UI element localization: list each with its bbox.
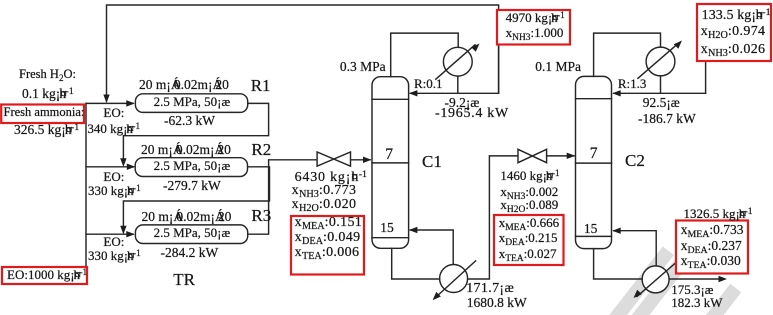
watermark stripe 2 <box>630 244 698 315</box>
wire: top NH3 recycle line from C1 distillate back to R1 feed <box>107 5 499 101</box>
label: EO 1000 kg/h <box>7 268 87 281</box>
label: -1965.4 kW <box>435 107 509 121</box>
condenser E1 diagonal arrow line <box>436 45 475 79</box>
arrowhead reboiler E2 diagonal <box>433 292 441 300</box>
label: 1326.5 kg/h <box>684 207 753 220</box>
wire: C2 bottoms product out <box>669 278 719 280</box>
reactor R3 body <box>135 225 247 244</box>
label: EO to R3 <box>103 235 124 248</box>
wire: R1 outlet to R2 <box>123 103 268 164</box>
wire: R1 feed line from EO bus <box>86 102 133 104</box>
red box B: Fresh ammonia <box>1 105 84 124</box>
label: R3 conditions <box>154 226 231 239</box>
column C2 stage-7 tray line <box>576 162 612 164</box>
label: R3 duty <box>161 246 219 260</box>
label: xNH3 0.002 <box>500 185 558 198</box>
condenser E3 circle <box>646 47 675 76</box>
red box F: C2 bottoms amine fractions <box>676 221 748 274</box>
label: 0.3 MPa <box>340 60 386 74</box>
label: xTEA 0.027 <box>499 247 557 260</box>
label: R3 dimensions <box>142 210 232 224</box>
arrowhead condenser E3 diagonal <box>674 41 682 49</box>
label: xH2O 0.020 <box>292 198 357 212</box>
label: R:0.1 <box>414 77 443 90</box>
wire: C1 reboiler return <box>411 230 454 265</box>
column C1 bottom cap line <box>372 237 409 239</box>
red box C: EO 1000 <box>2 267 87 284</box>
arrowhead C1 reboiler return <box>409 227 418 233</box>
wire: R2 feed line <box>86 166 134 168</box>
label: xDEA 0.237 <box>681 239 742 253</box>
arrowhead C2 reboiler return <box>612 228 621 234</box>
label: C1 stage 7 <box>385 147 393 163</box>
label: xTEA 0.030 <box>681 254 741 268</box>
label: xTEA 0.006 <box>295 246 360 260</box>
wire: C2 reboiler return <box>614 231 656 266</box>
label: xDEA 0.215 <box>499 231 558 244</box>
wire: C2 distillate to red box G <box>705 61 707 93</box>
label: R2 duty <box>163 179 221 193</box>
label: C1 <box>422 153 442 170</box>
wire: condenser E1 outlet down <box>457 76 459 93</box>
label: -9.2 C <box>445 96 480 110</box>
label: R1 <box>251 77 271 94</box>
label: xNH3 1.000 <box>506 26 564 39</box>
arrowhead into R2 <box>127 164 136 170</box>
wire: C1 overhead vapour to condenser <box>391 33 459 77</box>
label: 340 kg/h <box>87 122 140 135</box>
wire: condenser E3 outlet down <box>660 76 662 93</box>
arrowhead C1 reflux into column <box>409 90 418 96</box>
reactor R1 body <box>135 94 247 113</box>
label: R2 conditions <box>154 159 231 172</box>
wire: C2 reflux line <box>614 92 706 94</box>
label: 0.1 MPa <box>535 60 581 74</box>
column C2 shell <box>576 76 612 248</box>
red box D: C1 feed amine fractions <box>291 216 364 275</box>
label: 1460 kg/h <box>500 169 559 182</box>
label: 175.3 C <box>671 283 713 296</box>
column C1 stage-7 tray line <box>372 162 409 164</box>
label: xMEA 0.666 <box>499 216 559 229</box>
label: 6430 kg/h <box>295 171 367 185</box>
label: R2 dimensions <box>141 143 231 157</box>
label: C1 stage 15 <box>380 221 394 235</box>
red box A: C1 distillate 4970 <box>497 10 570 45</box>
column C1 shell <box>372 77 409 249</box>
wire: EO bus vertical <box>85 103 87 272</box>
wire: C1 bottoms product to valve V2 <box>468 156 518 279</box>
label: R1 dimensions <box>139 78 229 92</box>
label: 0.1 kg/h <box>22 87 74 101</box>
label: 1680.8 kW <box>467 296 527 310</box>
reactor R2 body <box>135 158 247 177</box>
condenser E1 circle <box>443 47 472 76</box>
arrowhead R1 outlet into R2 feed <box>120 158 126 167</box>
label: 92.5 C <box>643 96 680 110</box>
arrowhead into R1 <box>126 100 135 106</box>
label: C2 stage 15 <box>584 222 598 236</box>
arrowhead R2 outlet into R3 feed <box>120 226 126 235</box>
valve V1 <box>317 152 350 166</box>
label: R2 <box>251 141 271 158</box>
red box G: C2 distillate 133.5 <box>697 4 771 61</box>
reboiler E4 diagonal arrow line <box>637 262 677 297</box>
label: xNH3 0.026 <box>701 43 766 57</box>
label: TR <box>173 271 195 288</box>
column C2 top cap line <box>576 98 612 100</box>
label: R1 duty <box>164 114 215 128</box>
condenser E3 diagonal arrow line <box>638 44 678 78</box>
reboiler E4 circle <box>642 266 669 293</box>
watermark stripe 1 <box>606 244 741 315</box>
wire: V2 to C2 feed <box>547 155 574 157</box>
wire: C2 bottoms to reboiler <box>594 249 643 279</box>
wire: C1 distillate to red box A <box>498 10 500 93</box>
arrowhead C2 bottoms product <box>719 276 728 282</box>
reboiler E2 circle <box>440 265 468 293</box>
label: 330 kg/h R2 <box>88 184 141 197</box>
column C1 top cap line <box>372 98 409 100</box>
label: Fresh H2O <box>19 68 76 81</box>
label: -186.7 kW <box>638 112 696 126</box>
red box E: C2 feed amine fractions <box>494 215 564 265</box>
wire: C1 reflux line and distillate riser <box>411 92 499 94</box>
arrowhead recycle into R1 feed <box>103 95 109 104</box>
label: 326.5 kg/h <box>14 123 79 137</box>
label: 182.3 kW <box>671 296 722 309</box>
label: 171.7 C <box>466 282 514 296</box>
label: xH2O 0.089 <box>500 198 558 211</box>
wire: R3 outlet to valve V1 and C1 feed <box>248 160 318 234</box>
label: Fresh ammonia <box>4 106 85 119</box>
column C2 bottom cap line <box>576 235 612 237</box>
arrowhead condenser E1 diagonal <box>471 44 479 52</box>
label: xH2O 0.974 <box>701 25 766 39</box>
valve V2 <box>518 149 547 162</box>
label: R:1.3 <box>618 77 647 90</box>
label: C2 stage 7 <box>590 146 598 162</box>
label: xNH3 0.773 <box>292 184 357 198</box>
arrowhead into R3 <box>126 231 135 237</box>
label: xMEA 0.733 <box>681 223 744 237</box>
wire: V1 to C1 <box>350 159 370 161</box>
label: R3 <box>251 207 271 224</box>
wire: C1 bottoms to reboiler <box>392 248 440 279</box>
arrowhead feed into C2 <box>567 153 576 159</box>
wire: R2 outlet to R3 <box>123 167 269 232</box>
label: 4970 kg/h <box>506 11 565 24</box>
label: 330 kg/h R3 <box>88 249 141 262</box>
arrowhead reboiler E4 diagonal <box>634 290 642 298</box>
label: EO to R2 <box>103 170 124 183</box>
label: 133.5 kg/h <box>702 9 771 23</box>
label: xMEA 0.151 <box>295 216 363 230</box>
wire: R3 feed line <box>86 233 133 235</box>
watermark stripe 3 <box>701 284 742 315</box>
reboiler E2 diagonal arrow line <box>436 261 476 297</box>
label: EO to R1 <box>103 106 124 119</box>
label: R1 conditions <box>154 95 231 108</box>
arrowhead C2 reflux into column <box>612 90 621 96</box>
label: xDEA 0.049 <box>295 231 361 245</box>
arrowhead feed into C1 <box>363 157 372 163</box>
wire: C2 overhead vapour to condenser <box>594 33 661 76</box>
label: C2 <box>625 152 645 169</box>
